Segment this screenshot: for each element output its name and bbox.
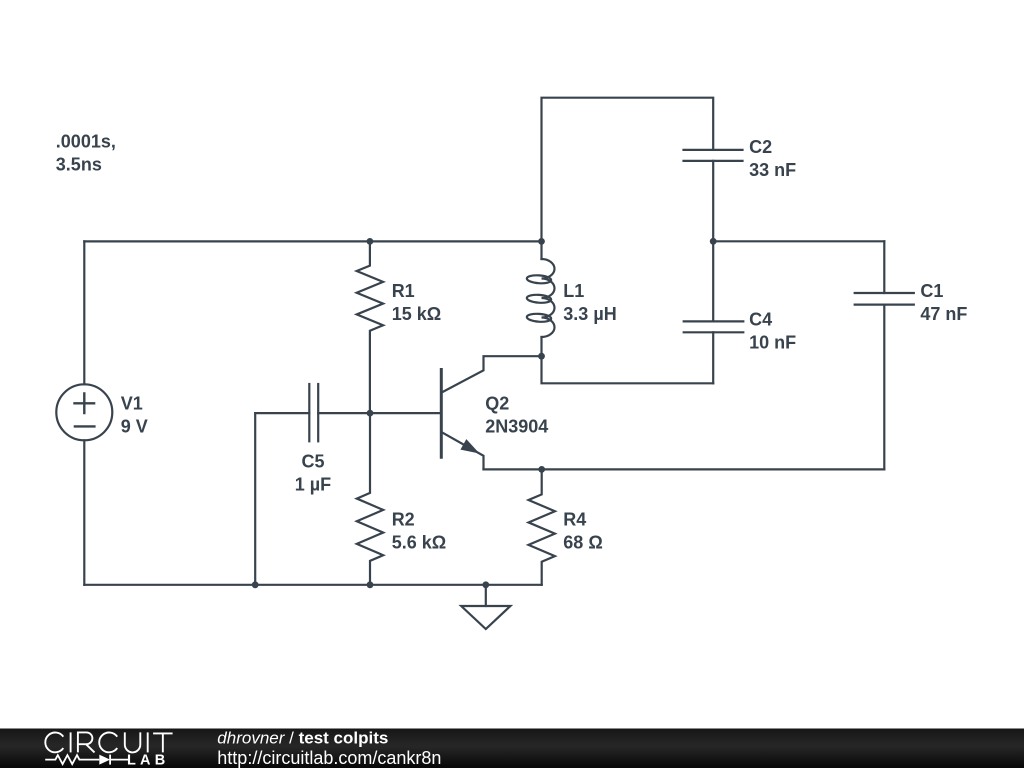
inductor L1 bbox=[527, 241, 555, 356]
junction top rail R1 bbox=[367, 238, 374, 245]
svg-text:R1: R1 bbox=[392, 281, 415, 301]
capacitor C1 bbox=[855, 241, 914, 469]
resistor R1 bbox=[357, 241, 383, 413]
footer bar bbox=[0, 729, 1024, 768]
svg-text:C1: C1 bbox=[920, 281, 943, 301]
svg-text:http://circuitlab.com/cankr8n: http://circuitlab.com/cankr8n bbox=[217, 748, 441, 768]
svg-text:15 kΩ: 15 kΩ bbox=[392, 304, 441, 324]
junction bottom rail R2 bbox=[367, 581, 374, 588]
svg-text:10 nF: 10 nF bbox=[749, 333, 796, 353]
wire right rail bbox=[713, 240, 884, 242]
capacitor C2 bbox=[684, 150, 743, 241]
svg-text:47 nF: 47 nF bbox=[920, 304, 967, 324]
svg-text:1 µF: 1 µF bbox=[295, 475, 331, 495]
resistor R2 bbox=[357, 413, 383, 585]
label V1 bbox=[121, 394, 148, 437]
junction collector node bbox=[538, 353, 545, 360]
svg-text:.0001s,: .0001s, bbox=[56, 132, 116, 152]
ground bbox=[461, 585, 510, 629]
svg-text:5.6 kΩ: 5.6 kΩ bbox=[392, 533, 446, 553]
wire left rail upper bbox=[83, 241, 85, 384]
capacitor C5 bbox=[255, 384, 370, 441]
wire C4 bottom loop bbox=[542, 356, 714, 383]
label R4 bbox=[563, 510, 602, 553]
svg-text:68 Ω: 68 Ω bbox=[563, 533, 602, 553]
svg-text:C5: C5 bbox=[301, 452, 324, 472]
svg-text:Q2: Q2 bbox=[485, 394, 509, 414]
svg-text:3.5ns: 3.5ns bbox=[56, 155, 102, 175]
label C1 bbox=[920, 281, 967, 324]
label R1 bbox=[392, 281, 441, 324]
wire emitter rail bbox=[484, 468, 885, 470]
svg-text:9 V: 9 V bbox=[121, 417, 148, 437]
svg-text:dhrovner / test colpits: dhrovner / test colpits bbox=[217, 729, 388, 748]
svg-text:33 nF: 33 nF bbox=[749, 160, 796, 180]
svg-text:3.3 µH: 3.3 µH bbox=[563, 304, 616, 324]
wire base bbox=[370, 412, 440, 414]
junction bottom rail ground bbox=[482, 581, 489, 588]
label C4 bbox=[749, 310, 796, 353]
svg-text:C4: C4 bbox=[749, 310, 772, 330]
label L1 bbox=[563, 281, 616, 324]
junction emitter node bbox=[538, 466, 545, 473]
svg-text:LAB: LAB bbox=[127, 752, 169, 768]
wire left rail lower bbox=[83, 440, 85, 585]
junction bottom rail C5 bbox=[252, 581, 259, 588]
label Q2 bbox=[485, 394, 548, 437]
label C2 bbox=[749, 137, 796, 180]
svg-text:R4: R4 bbox=[563, 510, 586, 530]
capacitor C4 bbox=[684, 241, 744, 383]
resistor R4 bbox=[529, 469, 555, 584]
wire bottom rail bbox=[84, 584, 541, 586]
wire top rail bbox=[84, 240, 541, 242]
junction C2-C4-rail bbox=[710, 238, 717, 245]
transistor Q2 bbox=[441, 356, 541, 469]
wire top rectangle bbox=[542, 98, 714, 242]
annotation .0001s 3.5ns bbox=[56, 132, 116, 175]
logo squiggle bbox=[45, 755, 128, 765]
label C5 bbox=[295, 452, 331, 495]
label R2 bbox=[392, 510, 446, 553]
junction top rail L1 bbox=[538, 238, 545, 245]
junction base node bbox=[367, 410, 374, 417]
svg-text:V1: V1 bbox=[121, 394, 143, 414]
svg-text:L1: L1 bbox=[563, 281, 584, 301]
svg-text:2N3904: 2N3904 bbox=[485, 417, 548, 437]
voltage source V1 bbox=[56, 384, 112, 440]
logo CIRCUIT bbox=[45, 732, 172, 752]
wire C5 left drop bbox=[254, 413, 256, 585]
svg-text:R2: R2 bbox=[392, 510, 415, 530]
svg-text:C2: C2 bbox=[749, 137, 772, 157]
